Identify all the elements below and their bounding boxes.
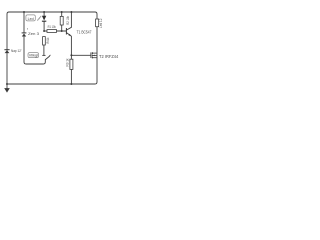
node dot top rail / zener branch — [23, 11, 25, 13]
wire R2 branch from top rail to base line — [61, 12, 63, 31]
node dot top rail / collector — [70, 11, 72, 13]
LED D2 — [42, 16, 46, 22]
svg-text:R1 10k: R1 10k — [48, 24, 56, 29]
svg-text:T2 IRFZ44: T2 IRFZ44 — [99, 54, 119, 59]
tick mark above Zen 3 — [27, 28, 29, 29]
ground — [4, 88, 10, 93]
zener D1 Zen 3 — [22, 33, 27, 37]
node A dot LED/R1/R4 — [43, 30, 45, 32]
svg-text:Led 12: Led 12 — [99, 19, 103, 29]
battery/zener Nap 12 — [4, 50, 9, 53]
transistor Q1 emitter arrowhead — [69, 34, 71, 36]
mosfet Q2 channel dashes — [91, 52, 93, 58]
label box Vilkgl — [28, 53, 39, 58]
svg-text:T1 BC547: T1 BC547 — [77, 29, 92, 34]
wire contact branch below R4 — [43, 45, 45, 55]
LED arrows — [37, 16, 41, 21]
wire T1 collector to top rail — [67, 12, 72, 30]
svg-text:Nap 12': Nap 12' — [11, 48, 22, 53]
wire gate node to T2 gate — [71, 54, 91, 56]
svg-text:Led: Led — [28, 17, 34, 21]
wire LED branch x=44.1 — [43, 12, 45, 31]
mosfet Q2 source stub — [93, 57, 97, 59]
mosfet Q2 drain stub — [93, 52, 97, 54]
resistor R1 10k — [47, 30, 57, 33]
node dot top rail / LED branch — [43, 11, 45, 13]
svg-text:Vilkgl: Vilkgl — [29, 54, 39, 58]
resistor R2 — [60, 16, 63, 25]
svg-text:R3 1k: R3 1k — [66, 58, 70, 66]
mosfet Q2 gate plate — [90, 52, 92, 58]
label box Led — [26, 15, 35, 21]
resistor R4 — [43, 37, 46, 45]
wire main loop: left rail, top rail, right rail, bottom rail — [7, 12, 97, 88]
node dot emitter/gate/R3 — [70, 54, 72, 56]
wire R3 to bottom rail — [70, 55, 72, 84]
relay contact bar — [42, 54, 45, 56]
wire base line from node A to T1 base — [44, 30, 66, 32]
wire zener branch + relay box left/bottom/right — [24, 12, 45, 64]
resistor R3 — [70, 59, 73, 69]
svg-text:R2 10k: R2 10k — [66, 16, 70, 25]
transistor Q1 base bar — [66, 28, 67, 35]
resistor/lamp Led 12 — [96, 19, 99, 27]
node dot bottom rail / ground — [6, 83, 8, 85]
switch lever end tick — [49, 55, 50, 57]
node dot R2/base line — [61, 30, 63, 32]
node dot top rail / R2 branch — [61, 11, 63, 13]
switch lever — [45, 56, 50, 60]
svg-text:R4 1k: R4 1k — [46, 38, 50, 44]
svg-text:Zen 3: Zen 3 — [28, 31, 40, 36]
node dot R3 / bottom rail — [70, 83, 72, 85]
mosfet Q2 body stub with arrow — [93, 54, 97, 56]
wire T1 emitter down to gate node — [67, 33, 72, 55]
